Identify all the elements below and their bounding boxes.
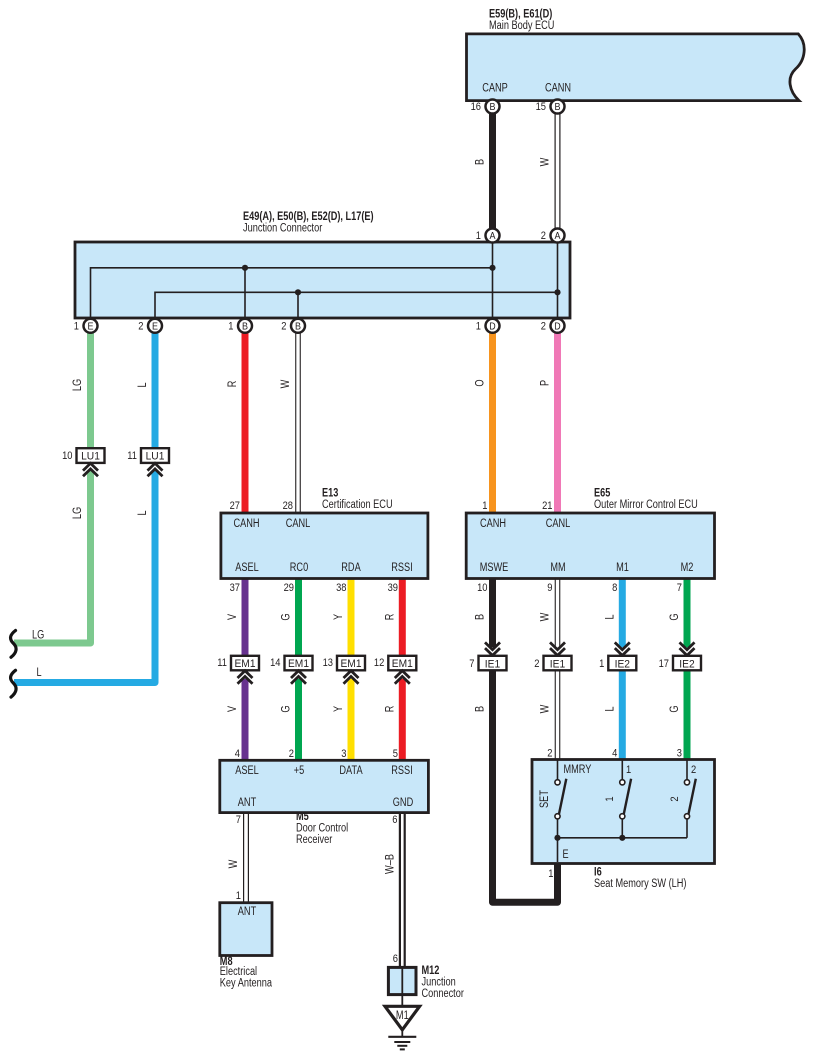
svg-text:E65: E65 bbox=[594, 486, 611, 500]
connector LU1 pin 11 bbox=[141, 448, 169, 476]
svg-text:M12: M12 bbox=[422, 963, 440, 977]
svg-text:M1: M1 bbox=[396, 1010, 409, 1022]
svg-text:10: 10 bbox=[62, 450, 72, 462]
svg-text:1: 1 bbox=[228, 321, 233, 333]
ground triangle M1 bbox=[385, 1006, 420, 1030]
svg-text:B: B bbox=[475, 614, 487, 620]
svg-text:Y: Y bbox=[333, 706, 345, 712]
wire LG from junction pin 1E to break squiggle bbox=[87, 319, 94, 448]
svg-text:E: E bbox=[152, 320, 158, 332]
svg-text:G: G bbox=[281, 613, 293, 620]
connector IE2 pin 1 with down arrow bbox=[608, 642, 636, 670]
switch 2 stub from pin 3 bbox=[686, 760, 688, 780]
svg-text:7: 7 bbox=[677, 582, 682, 594]
svg-text:Seat Memory SW (LH): Seat Memory SW (LH) bbox=[594, 878, 687, 890]
svg-text:IE1: IE1 bbox=[550, 658, 565, 670]
svg-text:14: 14 bbox=[270, 657, 280, 669]
connector IE1 pin 7 with down arrow bbox=[479, 642, 507, 670]
pin 1 circle D on junction bottom bbox=[486, 319, 500, 333]
svg-text:13: 13 bbox=[323, 657, 333, 669]
junction internal vertical 2A-2D bbox=[557, 243, 559, 317]
wire Y from E13 RDA pin 38 to M5 pin 3 bbox=[348, 578, 355, 656]
wire G from E65 M2 pin 7 to I6 pin 3 bbox=[684, 578, 691, 647]
connector IE1 pin 2 with down arrow bbox=[544, 642, 572, 670]
svg-text:I6: I6 bbox=[594, 865, 602, 879]
svg-text:MSWE: MSWE bbox=[480, 562, 509, 574]
svg-text:3: 3 bbox=[341, 748, 346, 760]
svg-text:Receiver: Receiver bbox=[296, 834, 332, 846]
svg-text:IE1: IE1 bbox=[485, 658, 500, 670]
svg-text:B: B bbox=[475, 706, 487, 712]
svg-text:38: 38 bbox=[336, 582, 346, 594]
svg-text:2: 2 bbox=[691, 764, 696, 776]
ground hatch line 4 bbox=[400, 1048, 405, 1050]
svg-text:E13: E13 bbox=[322, 486, 339, 500]
svg-text:6: 6 bbox=[393, 953, 398, 965]
svg-text:ASEL: ASEL bbox=[235, 562, 259, 574]
svg-text:A: A bbox=[555, 230, 561, 242]
svg-text:Electrical: Electrical bbox=[220, 966, 257, 978]
switch 1 bottom contact bbox=[620, 814, 625, 819]
svg-text:V: V bbox=[227, 614, 239, 620]
connector EM1 pin 13 bbox=[337, 656, 365, 684]
svg-text:CANL: CANL bbox=[286, 518, 311, 530]
svg-text:27: 27 bbox=[230, 500, 240, 512]
svg-text:EM1: EM1 bbox=[288, 658, 309, 670]
svg-text:1: 1 bbox=[626, 764, 631, 776]
wire B from CANP pin 16 to junction pin 1A bbox=[489, 101, 496, 242]
svg-text:L: L bbox=[604, 614, 616, 620]
svg-text:4: 4 bbox=[235, 748, 240, 760]
svg-text:EM1: EM1 bbox=[341, 658, 362, 670]
junction node dot at 1B bus bbox=[242, 265, 248, 271]
svg-text:V: V bbox=[227, 706, 239, 712]
svg-text:ANT: ANT bbox=[238, 797, 256, 809]
wire through M12 bbox=[401, 967, 403, 994]
ECU box E65 Outer Mirror Control ECU bbox=[466, 513, 714, 579]
svg-text:GND: GND bbox=[393, 797, 413, 809]
svg-text:L: L bbox=[37, 667, 43, 679]
svg-text:CANN: CANN bbox=[545, 83, 571, 95]
junction node dot at 2D bus bbox=[554, 289, 560, 295]
svg-text:RSSI: RSSI bbox=[391, 765, 413, 777]
svg-text:16: 16 bbox=[471, 101, 481, 113]
svg-text:L: L bbox=[137, 510, 149, 516]
svg-text:2: 2 bbox=[138, 321, 143, 333]
svg-text:Main Body ECU: Main Body ECU bbox=[489, 20, 554, 32]
title M5 Door Control Receiver bbox=[296, 809, 348, 846]
wire R from junction pin 1B to E13 pin 27 bbox=[242, 319, 249, 513]
svg-text:17: 17 bbox=[659, 658, 669, 670]
switch 1 top contact bbox=[620, 780, 625, 785]
pin 1 circle E on junction bottom bbox=[84, 319, 98, 333]
svg-text:1: 1 bbox=[74, 321, 79, 333]
wire L from junction pin 2E to break squiggle bbox=[152, 319, 159, 448]
svg-text:2: 2 bbox=[669, 796, 681, 801]
svg-text:8: 8 bbox=[612, 582, 617, 594]
switch SET bottom contact bbox=[555, 814, 560, 819]
wire P from junction pin 2D to E65 pin 21 bbox=[554, 319, 561, 513]
svg-text:MMRY: MMRY bbox=[564, 764, 592, 776]
ground hatch line 3 bbox=[397, 1045, 407, 1047]
switch 1 stub from pin 4 bbox=[621, 760, 623, 780]
title E49(A), E50(B), E52(D), L17(E) Junction Connector bbox=[243, 209, 374, 235]
switch SET stub from pin 2 bbox=[557, 760, 559, 780]
svg-text:29: 29 bbox=[284, 582, 294, 594]
svg-text:Connector: Connector bbox=[422, 988, 465, 1000]
svg-text:B: B bbox=[475, 159, 487, 165]
switch 2 bottom contact bbox=[684, 814, 689, 819]
svg-text:4: 4 bbox=[612, 748, 617, 760]
svg-text:RSSI: RSSI bbox=[391, 562, 413, 574]
svg-text:Y: Y bbox=[333, 614, 345, 620]
switch 2 blade bbox=[689, 779, 696, 814]
svg-text:E59(B), E61(D): E59(B), E61(D) bbox=[489, 7, 552, 21]
svg-text:Junction Connector: Junction Connector bbox=[243, 223, 322, 235]
svg-text:IE2: IE2 bbox=[615, 658, 630, 670]
svg-text:11: 11 bbox=[217, 657, 227, 669]
svg-text:ASEL: ASEL bbox=[235, 765, 259, 777]
svg-text:3: 3 bbox=[677, 748, 682, 760]
switch 2 lower stub bbox=[686, 819, 688, 838]
svg-text:2: 2 bbox=[547, 748, 552, 760]
svg-text:2: 2 bbox=[289, 748, 294, 760]
svg-text:CANP: CANP bbox=[482, 83, 508, 95]
box I6 Seat Memory SW (LH) bbox=[532, 760, 715, 864]
pin 2 circle E on junction bottom bbox=[148, 319, 162, 333]
switch SET lower stub bbox=[557, 819, 559, 838]
svg-text:1: 1 bbox=[476, 321, 481, 333]
pin 16 circle B on Main Body ECU bbox=[486, 100, 500, 114]
svg-text:W: W bbox=[540, 158, 552, 167]
svg-text:7: 7 bbox=[236, 814, 241, 826]
junction internal vertical 1A-1D bbox=[492, 243, 494, 317]
switch SET blade bbox=[559, 779, 566, 814]
svg-text:9: 9 bbox=[547, 582, 552, 594]
svg-text:2: 2 bbox=[541, 230, 546, 242]
box M5 Door Control Receiver bbox=[220, 760, 429, 812]
wire B continued below IE1 to I6 pin 1 bbox=[493, 670, 558, 902]
svg-text:1: 1 bbox=[604, 796, 616, 801]
wire W from junction pin 2B to E13 pin 28 bbox=[295, 319, 301, 513]
connector IE2 pin 17 with down arrow bbox=[673, 642, 701, 670]
svg-text:LU1: LU1 bbox=[146, 451, 165, 463]
svg-text:LG: LG bbox=[72, 507, 84, 519]
wire from M12 to ground triangle M1 bbox=[401, 967, 403, 1007]
svg-text:2: 2 bbox=[534, 658, 539, 670]
pin 1 circle A on junction top bbox=[486, 229, 500, 243]
svg-text:R: R bbox=[227, 381, 239, 388]
svg-text:Outer Mirror Control ECU: Outer Mirror Control ECU bbox=[594, 499, 698, 511]
svg-text:E49(A), E50(B), E52(D), L17(E): E49(A), E50(B), E52(D), L17(E) bbox=[243, 209, 374, 223]
title M12 Junction Connector bbox=[422, 963, 465, 1000]
svg-text:W: W bbox=[540, 613, 552, 622]
svg-text:W–B: W–B bbox=[385, 854, 397, 874]
switch 1 lower stub bbox=[621, 819, 623, 838]
svg-text:CANH: CANH bbox=[480, 518, 506, 530]
svg-text:ANT: ANT bbox=[238, 906, 256, 918]
wire W from M5 ANT pin 7 to M8 pin 1 bbox=[243, 812, 249, 903]
svg-text:EM1: EM1 bbox=[235, 658, 256, 670]
svg-text:RC0: RC0 bbox=[290, 562, 308, 574]
svg-text:B: B bbox=[295, 320, 301, 332]
svg-text:IE2: IE2 bbox=[679, 658, 694, 670]
svg-text:10: 10 bbox=[477, 582, 487, 594]
svg-text:LU1: LU1 bbox=[81, 451, 100, 463]
switch SET top contact bbox=[555, 780, 560, 785]
pin 2 circle B on junction bottom bbox=[291, 319, 305, 333]
svg-text:M1: M1 bbox=[616, 562, 629, 574]
svg-text:MM: MM bbox=[550, 562, 565, 574]
pin 1 circle B on junction bottom bbox=[238, 319, 252, 333]
svg-text:1: 1 bbox=[476, 230, 481, 242]
svg-text:RDA: RDA bbox=[341, 562, 361, 574]
wire L from E65 M1 pin 8 to I6 pin 4 bbox=[619, 578, 626, 647]
box M8 Electrical Key Antenna bbox=[220, 903, 272, 956]
svg-text:G: G bbox=[281, 705, 293, 712]
pin 2 circle D on junction bottom bbox=[551, 319, 565, 333]
junction node dot at 2B bus bbox=[295, 289, 301, 295]
title E13 Certification ECU bbox=[322, 486, 393, 512]
wire G from E13 RC0 pin 29 to M5 pin 2 bbox=[295, 578, 302, 656]
junction node dot at 1D bus bbox=[489, 265, 495, 271]
svg-text:LG: LG bbox=[72, 379, 84, 391]
svg-text:7: 7 bbox=[469, 658, 474, 670]
pin 2 circle A on junction top bbox=[551, 229, 565, 243]
svg-text:L: L bbox=[137, 382, 149, 388]
ECU box E59(B) E61(D) Main Body ECU with torn right edge bbox=[467, 34, 805, 101]
ground stem below triangle bbox=[401, 1030, 403, 1037]
box M12 junction connector bbox=[388, 967, 416, 994]
ground hatch line 1 bbox=[388, 1036, 416, 1038]
junction connector box E49(A) E50(B) E52(D) L17(E) bbox=[75, 242, 570, 318]
svg-text:R: R bbox=[385, 614, 397, 621]
svg-text:B: B bbox=[555, 101, 561, 113]
svg-text:O: O bbox=[475, 379, 487, 386]
svg-text:11: 11 bbox=[127, 450, 137, 462]
switch 2 top contact bbox=[684, 780, 689, 785]
svg-text:15: 15 bbox=[536, 101, 546, 113]
svg-text:W: W bbox=[540, 705, 552, 714]
svg-text:DATA: DATA bbox=[339, 765, 362, 777]
I6 internal bus to E bbox=[558, 838, 688, 862]
svg-text:W: W bbox=[280, 380, 292, 389]
wire R from E13 RSSI pin 39 to M5 pin 5 bbox=[399, 578, 406, 656]
svg-text:E: E bbox=[563, 849, 569, 861]
svg-text:SET: SET bbox=[539, 790, 551, 808]
connector EM1 pin 11 bbox=[231, 656, 259, 684]
break squiggle LG wire bbox=[11, 631, 17, 658]
svg-text:39: 39 bbox=[388, 582, 398, 594]
svg-text:12: 12 bbox=[374, 657, 384, 669]
wire W-B from M5 GND pin 6 to M12 pin 6 bbox=[399, 812, 406, 967]
break squiggle L wire bbox=[11, 670, 17, 697]
junction internal bus line 2 bbox=[155, 292, 558, 317]
connector LU1 pin 10 bbox=[77, 448, 105, 476]
svg-text:B: B bbox=[490, 101, 496, 113]
title E65 Outer Mirror Control ECU bbox=[594, 486, 698, 512]
svg-text:CANL: CANL bbox=[546, 518, 571, 530]
pin 15 circle B on Main Body ECU bbox=[551, 100, 565, 114]
svg-text:28: 28 bbox=[283, 500, 293, 512]
svg-text:A: A bbox=[490, 230, 496, 242]
title I6 Seat Memory SW (LH) bbox=[594, 865, 687, 891]
svg-text:1: 1 bbox=[548, 868, 553, 880]
wire O from junction pin 1D to E65 pin 1 bbox=[489, 319, 496, 513]
svg-text:5: 5 bbox=[393, 748, 398, 760]
ECU box E13 Certification ECU bbox=[221, 513, 428, 579]
I6 node dot switch1 bbox=[619, 835, 625, 841]
connector EM1 pin 14 bbox=[285, 656, 313, 684]
junction internal bus line 1 bbox=[91, 268, 493, 317]
svg-text:G: G bbox=[669, 705, 681, 712]
svg-text:EM1: EM1 bbox=[392, 658, 413, 670]
svg-text:M5: M5 bbox=[296, 809, 309, 823]
wire B from E65 MSWE pin 10 down, right, up to I6 pin 1 bbox=[489, 578, 496, 647]
wire V from E13 ASEL pin 37 to M5 pin 4 bbox=[242, 578, 249, 656]
svg-text:1: 1 bbox=[482, 500, 487, 512]
svg-text:LG: LG bbox=[32, 629, 44, 641]
svg-text:D: D bbox=[554, 320, 561, 332]
svg-text:2: 2 bbox=[541, 321, 546, 333]
title E59(B), E61(D) Main Body ECU bbox=[489, 7, 554, 33]
svg-text:Door Control: Door Control bbox=[296, 823, 348, 835]
svg-text:E: E bbox=[88, 320, 94, 332]
svg-text:Junction: Junction bbox=[422, 977, 456, 989]
svg-text:1: 1 bbox=[236, 890, 241, 902]
svg-text:+5: +5 bbox=[294, 765, 305, 777]
wire W from E65 MM pin 9 to I6 pin 2 bbox=[555, 578, 561, 760]
switch 1 blade bbox=[624, 779, 631, 814]
svg-text:Key Antenna: Key Antenna bbox=[220, 978, 273, 990]
wire W from CANN pin 15 to junction pin 2A bbox=[555, 101, 561, 242]
svg-text:D: D bbox=[489, 320, 496, 332]
title M8 Electrical Key Antenna bbox=[220, 954, 273, 990]
svg-text:37: 37 bbox=[230, 582, 240, 594]
svg-text:W: W bbox=[228, 860, 240, 869]
svg-text:2: 2 bbox=[281, 321, 286, 333]
svg-text:R: R bbox=[385, 706, 397, 713]
svg-text:CANH: CANH bbox=[233, 518, 259, 530]
svg-text:M2: M2 bbox=[681, 562, 694, 574]
svg-text:L: L bbox=[604, 706, 616, 712]
connector EM1 pin 12 bbox=[388, 656, 416, 684]
svg-text:1: 1 bbox=[599, 658, 604, 670]
svg-text:B: B bbox=[242, 320, 248, 332]
svg-text:Certification ECU: Certification ECU bbox=[322, 499, 393, 511]
svg-text:P: P bbox=[540, 380, 552, 386]
I6 node dot SET bbox=[554, 835, 560, 841]
svg-text:6: 6 bbox=[392, 814, 397, 826]
svg-text:21: 21 bbox=[542, 500, 552, 512]
ground hatch line 2 bbox=[394, 1041, 410, 1043]
svg-text:G: G bbox=[669, 613, 681, 620]
